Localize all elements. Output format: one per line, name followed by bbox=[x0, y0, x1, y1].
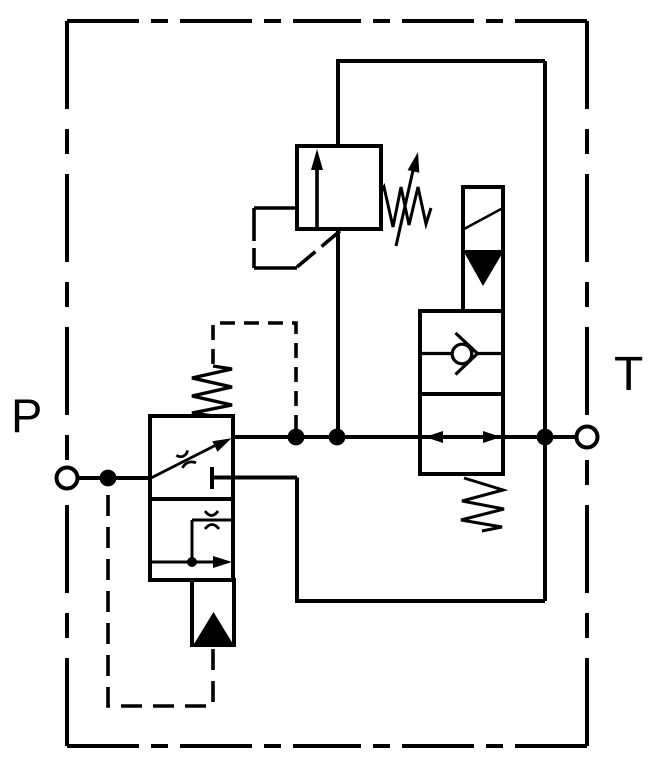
wire P port to flow valve bbox=[78, 476, 151, 480]
solenoid valve V2 body bbox=[420, 311, 503, 474]
flow control valve V3 blocked port bar bbox=[210, 467, 214, 489]
relief valve V1 flow arrow bbox=[311, 149, 323, 227]
flow control valve V3 lower flow arrow bbox=[150, 556, 232, 568]
wire blocked port stub bbox=[214, 476, 297, 480]
flow control valve V3 pilot stage triangle bbox=[194, 612, 233, 644]
flow control valve V3 pilot dashed loop (bottom) bbox=[108, 484, 213, 706]
wire T line vertical drop bbox=[543, 61, 547, 601]
enclosure boundary (dash-dot envelope) bbox=[67, 21, 587, 746]
relief valve V1 pilot line bbox=[254, 208, 340, 268]
junction dot T line bbox=[537, 429, 554, 446]
wire second-port loop bbox=[297, 478, 545, 602]
port T circle bbox=[577, 427, 598, 448]
junction dot on P line bbox=[100, 470, 117, 487]
junction dot relief/main bbox=[329, 429, 346, 446]
solenoid valve V2 solenoid bbox=[463, 187, 503, 311]
flow control valve V3 venturi arcs bbox=[176, 450, 196, 468]
wire relief top port bbox=[336, 61, 340, 146]
solenoid valve V2 proportional triangle bbox=[463, 252, 503, 287]
flow control valve V3 metering arrow bbox=[151, 438, 232, 478]
flow control valve V3 pilot stage box bbox=[192, 580, 234, 645]
solenoid valve V2 check valve bbox=[420, 333, 503, 375]
flow control valve V3 lower venturi arcs bbox=[205, 511, 219, 529]
solenoid valve V2 open-position arrows bbox=[425, 431, 501, 443]
flow control valve V3 upper body bbox=[150, 416, 233, 499]
relief valve V1 body bbox=[297, 146, 381, 229]
wire relief bottom port bbox=[336, 229, 340, 437]
flow control valve V3 lower pilot path bbox=[192, 520, 233, 562]
relief valve V1 adjustable spring bbox=[381, 152, 431, 246]
junction dot pilot/main bbox=[288, 429, 305, 446]
flow control valve V3 lower body bbox=[150, 499, 233, 580]
flow control valve V3 spring bbox=[192, 366, 232, 416]
flow control valve V3 pilot dashed loop (top) bbox=[213, 323, 296, 429]
wire main gallery to T bbox=[233, 435, 577, 439]
svg-text:P: P bbox=[11, 389, 42, 442]
wire top run to T line bbox=[336, 59, 545, 63]
svg-text:T: T bbox=[614, 348, 643, 401]
solenoid valve V2 position divider bbox=[420, 392, 503, 396]
solenoid valve V2 solenoid diagonal bbox=[464, 208, 503, 229]
port P circle bbox=[57, 468, 78, 489]
solenoid valve V2 return spring bbox=[461, 478, 504, 531]
